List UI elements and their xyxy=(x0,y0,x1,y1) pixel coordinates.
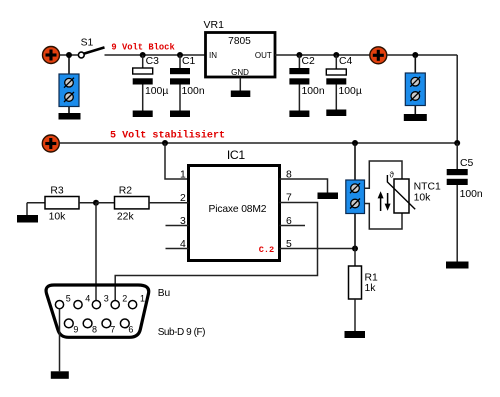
junction C5 xyxy=(454,140,460,146)
junction NTC branch xyxy=(352,140,358,146)
ground under VR1 xyxy=(231,91,251,98)
wire pin 8 to ground xyxy=(280,179,328,193)
wire NTC loop top xyxy=(365,161,403,188)
junction at C4 xyxy=(333,52,339,58)
svg-text:8: 8 xyxy=(92,325,97,335)
svg-text:C4: C4 xyxy=(339,56,353,67)
wire NTC branch vertical xyxy=(354,143,356,249)
svg-text:10k: 10k xyxy=(414,193,432,204)
svg-text:100µ: 100µ xyxy=(339,86,362,97)
svg-text:C2: C2 xyxy=(302,56,316,67)
svg-text:R3: R3 xyxy=(50,185,64,196)
svg-text:1: 1 xyxy=(180,170,186,181)
ground under C5 xyxy=(446,262,469,269)
svg-text:Picaxe 08M2: Picaxe 08M2 xyxy=(209,204,267,215)
svg-text:Bu: Bu xyxy=(158,288,170,299)
wire 5V to IC pin 1 xyxy=(165,143,189,179)
junction pin1 drop xyxy=(162,140,168,146)
capacitor C3 100u electrolytic xyxy=(133,55,169,111)
wire pin 6 stub xyxy=(280,225,306,227)
ground under C2 xyxy=(289,111,309,118)
capacitor C5 100n xyxy=(447,143,483,262)
ground under C4 xyxy=(326,110,346,117)
junction at C2 xyxy=(296,52,302,58)
wire VR1 GND pin xyxy=(239,78,241,91)
svg-text:100n: 100n xyxy=(302,86,325,97)
wire R3 to ground xyxy=(26,203,28,215)
ground under J2 xyxy=(404,114,427,121)
svg-text:9 Volt Block: 9 Volt Block xyxy=(111,42,175,52)
ground under C3 xyxy=(133,111,153,118)
wire right edge down to 5V rail xyxy=(456,55,458,143)
svg-text:1k: 1k xyxy=(365,283,377,294)
wire 5V rail xyxy=(59,142,457,144)
svg-text:3: 3 xyxy=(104,294,109,304)
svg-text:C.2: C.2 xyxy=(259,245,274,255)
svg-text:7805: 7805 xyxy=(228,36,251,47)
svg-text:100n: 100n xyxy=(460,189,483,200)
wire node to Sub-D pin 3 xyxy=(95,203,97,301)
resistor R1 1k xyxy=(349,249,379,332)
svg-text:GND: GND xyxy=(231,68,249,77)
wire pin 7 to Sub-D pin 2 xyxy=(115,203,317,301)
svg-text:9: 9 xyxy=(73,325,78,335)
terminal block J3 (NTC) xyxy=(346,180,365,214)
svg-text:C3: C3 xyxy=(146,56,160,67)
svg-text:NTC1: NTC1 xyxy=(414,181,441,192)
terminal X1 (+9V) xyxy=(43,47,60,64)
connector Bu Sub-D 9 (F) xyxy=(46,285,149,337)
wire NTC loop bottom xyxy=(365,204,403,230)
switch S1 xyxy=(78,38,104,58)
wire pin 3 stub xyxy=(166,225,189,227)
capacitor C4 100u electrolytic xyxy=(326,55,362,110)
resistor R3 10k xyxy=(27,185,96,222)
svg-text:22k: 22k xyxy=(117,212,135,223)
junction at C1 xyxy=(177,52,183,58)
svg-text:100n: 100n xyxy=(182,86,205,97)
svg-text:Sub-D 9 (F): Sub-D 9 (F) xyxy=(158,327,206,338)
ground under J1 xyxy=(59,113,81,120)
ground at R3 xyxy=(17,215,38,223)
wire VR1 OUT to terminal X2 xyxy=(275,54,371,56)
junction divider node xyxy=(352,246,358,252)
svg-text:IC1: IC1 xyxy=(227,148,245,162)
svg-text:VR1: VR1 xyxy=(204,19,225,31)
svg-text:4: 4 xyxy=(85,294,90,304)
svg-text:2: 2 xyxy=(122,294,127,304)
wire X2 to top-right corner xyxy=(387,54,458,56)
svg-text:IN: IN xyxy=(209,51,217,60)
svg-text:6: 6 xyxy=(128,325,133,335)
capacitor C2 100n xyxy=(289,55,324,111)
svg-text:ϑ: ϑ xyxy=(390,170,395,179)
wire 9V rail: terminal to switch xyxy=(56,54,79,56)
svg-text:C5: C5 xyxy=(460,158,474,169)
terminal block J1 (9V input) xyxy=(59,74,79,107)
junction at C3 xyxy=(140,52,146,58)
junction xyxy=(66,52,72,58)
capacitor C1 100n xyxy=(170,55,205,111)
wire drop to output terminal block xyxy=(414,55,416,114)
ground under C1 xyxy=(170,111,190,118)
svg-text:OUT: OUT xyxy=(255,51,272,60)
ground pin 8 xyxy=(318,193,339,200)
svg-text:S1: S1 xyxy=(81,38,94,49)
svg-text:5 Volt stabilisiert: 5 Volt stabilisiert xyxy=(110,129,225,141)
junction at J2 drop xyxy=(412,52,418,58)
ground at Sub-D xyxy=(51,371,69,379)
svg-text:10k: 10k xyxy=(49,212,67,223)
resistor R2 22k xyxy=(96,185,189,222)
IC1 Picaxe 08M2 xyxy=(189,148,280,260)
wire pin 5 to divider node xyxy=(280,248,356,250)
svg-text:100µ: 100µ xyxy=(145,86,168,97)
svg-text:5: 5 xyxy=(66,294,71,304)
junction R3/R2 node xyxy=(93,200,99,206)
svg-text:1: 1 xyxy=(140,294,145,304)
svg-text:C1: C1 xyxy=(182,56,196,67)
wire pin 4 stub xyxy=(166,248,189,250)
wire drop to input terminal block xyxy=(68,55,70,113)
regulator VR1 7805 xyxy=(204,19,276,77)
thermistor NTC1 10k xyxy=(378,170,441,213)
terminal block J2 (5V output) xyxy=(405,73,425,106)
ground under R1 xyxy=(345,331,366,338)
terminal X3 (5V stabilised) xyxy=(42,135,59,152)
svg-text:7: 7 xyxy=(110,325,115,335)
terminal X2 (+5V) xyxy=(370,47,387,64)
wire Sub-D pin 5 to ground xyxy=(59,308,61,371)
wire switch to VR1 IN xyxy=(105,54,206,56)
svg-text:R2: R2 xyxy=(119,185,133,196)
